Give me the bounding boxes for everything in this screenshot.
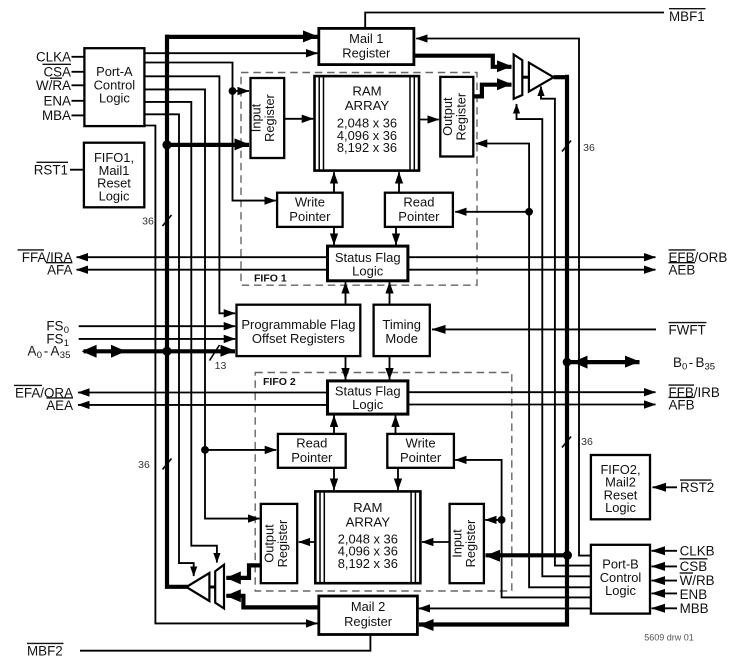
block Read Pointer 2 — [278, 434, 346, 468]
svg-text:35: 35 — [705, 361, 716, 372]
block Status Flag Logic 2 — [328, 381, 408, 414]
wire Port-A out 6 to output buffer 2 enable — [144, 114, 193, 576]
svg-text:ARRAY: ARRAY — [346, 514, 391, 529]
svg-text:AFB: AFB — [669, 398, 695, 413]
pin stub CLKA — [72, 56, 85, 58]
arrowhead A0-A35 right(mid) — [111, 345, 126, 358]
wire branch to Read Pointer 1 — [455, 211, 529, 213]
svg-text:Mail 2: Mail 2 — [351, 599, 385, 614]
block FIFO1 Mail1 Reset Logic — [84, 143, 144, 208]
block Programmable Flag Offset Registers — [237, 305, 361, 356]
svg-text:Read: Read — [296, 436, 327, 451]
wire Read Pointer 1 to RAM 1 — [398, 172, 400, 193]
svg-text:8,192 x 36: 8,192 x 36 — [337, 140, 397, 155]
junction dot A-data / Input Register 1 branch — [162, 140, 171, 149]
wire FWFT input to Timing Mode — [432, 328, 656, 330]
wire Read Pointer 1 to Status Flag Logic 1 — [395, 227, 397, 245]
svg-text:0: 0 — [37, 350, 42, 361]
register Input Register 2 — [450, 504, 484, 583]
bus width slash 36 lower-left — [163, 459, 172, 470]
svg-text:13: 13 — [215, 360, 227, 372]
svg-text:36: 36 — [138, 459, 150, 471]
bus width slash 13 — [210, 345, 220, 361]
output mux 1 (trapezoid, port B side) — [514, 55, 523, 99]
block Status Flag Logic 1 — [328, 246, 408, 281]
svg-text:B: B — [696, 355, 705, 370]
register Output Register 2 — [261, 504, 297, 583]
pin stub RST2 — [653, 486, 678, 488]
pin stub CLKB — [652, 550, 678, 552]
wire Port-A out 5 to output mux 2 enable — [144, 102, 217, 563]
svg-text:Pointer: Pointer — [398, 209, 440, 224]
svg-text:FWFT: FWFT — [669, 323, 706, 338]
junction dot Port-A out4 / Read Pointer 2 — [201, 446, 209, 454]
register Input Register 1 — [251, 78, 285, 158]
svg-text:36: 36 — [583, 142, 595, 154]
svg-text:MBA: MBA — [42, 108, 71, 123]
wire FFB/IRB flag line — [408, 391, 656, 393]
wire Read Pointer 2 to RAM 2 — [333, 468, 335, 490]
wire Write Pointer 1 to RAM 1 — [333, 172, 335, 193]
svg-text:A: A — [28, 344, 37, 359]
svg-text:Timing: Timing — [382, 317, 421, 332]
FIFO 1 dashed outline box — [241, 73, 477, 286]
svg-text:Logic: Logic — [99, 188, 130, 203]
register Mail 2 — [319, 596, 418, 635]
svg-text:Register: Register — [344, 614, 393, 629]
pin stub W/RA — [72, 84, 85, 86]
arrowhead A0-A35 left — [82, 345, 97, 358]
wire Port-A out 4 vertical to Output Register 2 — [144, 89, 259, 518]
wire Prog Flag Offset to Status Flag Logic 2 — [345, 356, 347, 379]
svg-text:RAM: RAM — [353, 500, 382, 515]
wire output mux 1 to output buffer 1 — [522, 76, 529, 79]
block FIFO2 Mail2 Reset Logic — [591, 455, 650, 519]
wire MBF2 net (Mail 2 Register bottom to MBF2 pin) — [80, 636, 370, 651]
wire Write Pointer 2 to Status Flag Logic 2 — [395, 416, 397, 434]
wire Timing Mode to Status Flag Logic 1 — [389, 282, 391, 305]
wire AEB flag line — [408, 269, 656, 271]
svg-text:W/RA: W/RA — [36, 78, 71, 93]
svg-text:ENA: ENA — [43, 94, 71, 109]
wire B-data branch to Input Register 2 (thick) — [486, 553, 568, 557]
svg-text:W/RB: W/RB — [680, 573, 715, 588]
pin stub CSB — [652, 565, 678, 567]
wire EFB/ORB flag line — [408, 256, 656, 258]
svg-text:35: 35 — [60, 350, 71, 361]
wire Port-B out 1 to Mail 1 Register control — [416, 39, 591, 556]
svg-text:0: 0 — [64, 325, 69, 336]
wire B0-B35 bus (thick, bidirectional) — [567, 360, 640, 364]
svg-text:Pointer: Pointer — [291, 450, 333, 465]
wire Output Register 1 data to output mux 1 (thick) — [473, 85, 511, 97]
svg-text:AEA: AEA — [46, 398, 73, 413]
svg-text:Read: Read — [403, 195, 434, 210]
wire B-data thick: output buffer 1 to B bus / Mail 2 Register — [554, 75, 567, 79]
svg-text:CLKB: CLKB — [680, 543, 715, 558]
block Port-A Control Logic — [84, 48, 144, 126]
FIFO 2 dashed outline box — [255, 373, 512, 592]
bus width slash 36 upper-left — [163, 215, 172, 226]
pin stub W/RB — [652, 580, 678, 582]
svg-text:Register: Register — [463, 519, 478, 567]
wire branch to Input Register 2 control — [485, 519, 501, 521]
pin stub MBB — [652, 607, 678, 609]
wire Port-B out 4 to Output Register 1 control — [476, 144, 591, 588]
wire Port-A out 2 vertical to Write Pointer 1 — [144, 63, 275, 201]
svg-text:RST2: RST2 — [680, 480, 714, 495]
svg-text:Logic: Logic — [605, 500, 636, 515]
wire Port-B out 3 to output mux 1 enable — [517, 104, 591, 576]
svg-text:Pointer: Pointer — [289, 209, 331, 224]
svg-text:-: - — [689, 355, 693, 370]
svg-text:RST1: RST1 — [34, 162, 68, 177]
pin stub CSA — [72, 71, 85, 73]
svg-text:8,192 x 36: 8,192 x 36 — [338, 556, 398, 571]
junction dot Port-B out5 / Input Register 2 — [498, 516, 506, 524]
register Output Register 1 — [440, 77, 473, 157]
pin stub ENA — [72, 100, 85, 102]
svg-text:Programmable Flag: Programmable Flag — [241, 317, 355, 332]
wire Port-B out 2 to output buffer 1 enable — [541, 87, 591, 566]
svg-text:0: 0 — [682, 361, 687, 372]
pin stub ENB — [652, 592, 678, 594]
wire AFB flag line — [408, 404, 656, 406]
svg-text:Logic: Logic — [605, 583, 636, 598]
wire A0-A35 bus (thick, bidirectional) — [84, 349, 236, 353]
bus width slash 36 upper-right — [562, 141, 571, 152]
junction dot B-data / B0-B35 — [563, 358, 572, 367]
wire Prog Flag Offset to Status Flag Logic 1 — [345, 282, 347, 305]
wire Mail 2 Register data to output mux 2 (thick) — [226, 596, 318, 608]
wire AFA flag line — [77, 269, 328, 271]
svg-text:MBF1: MBF1 — [669, 9, 705, 24]
wire branch to Input Register 1 control — [233, 90, 250, 92]
wire Port-B out 5 to Write Pointer 2 — [455, 460, 591, 598]
svg-text:Mail 1: Mail 1 — [349, 31, 383, 46]
svg-text:Register: Register — [454, 92, 469, 140]
wire Write Pointer 2 to RAM 2 — [397, 468, 399, 490]
output mux 2 (trapezoid, port A side) — [215, 565, 224, 609]
block RAM ARRAY 1 — [315, 76, 420, 171]
wire Mail 1 Register data to output mux 1 (thick) — [414, 56, 512, 67]
wire output mux 2 to output buffer 2 — [209, 586, 215, 589]
svg-text:ARRAY: ARRAY — [345, 98, 390, 113]
wire EFA/ORA flag line — [78, 392, 328, 394]
wire AEA flag line — [78, 404, 328, 406]
svg-text:1: 1 — [64, 338, 69, 349]
bus width slash 36 lower-right — [562, 437, 571, 448]
wire Input Register 2 to RAM 2 — [422, 541, 450, 543]
wire FS0 input — [79, 325, 236, 327]
svg-text:B: B — [673, 355, 682, 370]
wire bus A-data branch to Input Register 1 (thick) — [167, 143, 249, 147]
wire Timing Mode to Status Flag Logic 2 — [389, 356, 391, 379]
svg-text:ENB: ENB — [680, 587, 708, 602]
svg-text:Register: Register — [275, 519, 290, 567]
block RAM ARRAY 2 — [315, 491, 420, 583]
wire RAM 1 to Output Register 1 — [419, 119, 439, 121]
wire FS1 input — [79, 338, 236, 340]
svg-text:Logic: Logic — [99, 91, 130, 106]
wire Port-A out 1 to Mail 1 Register — [144, 52, 317, 54]
svg-text:Write: Write — [406, 436, 436, 451]
wire MBF1 net (Mail 1 Register top to MBF1 pin) — [365, 13, 664, 29]
wire bus A-data vertical (thick) with Mail 1 arrow — [167, 35, 318, 39]
svg-text:MBB: MBB — [680, 601, 709, 616]
arrowhead B0-B35 left — [573, 356, 588, 369]
wire FFA/IRA flag line — [77, 256, 328, 258]
junction dot Port-A out2 / Input Register 1 — [229, 87, 237, 95]
svg-text:Offset Registers: Offset Registers — [252, 331, 345, 346]
svg-text:-: - — [44, 344, 48, 359]
svg-text:Logic: Logic — [352, 264, 384, 279]
svg-text:Mode: Mode — [385, 331, 418, 346]
svg-text:Register: Register — [262, 93, 277, 141]
svg-text:CSB: CSB — [680, 559, 708, 574]
svg-text:Register: Register — [342, 45, 391, 60]
output buffer 1 (triangle, port B side) — [529, 63, 554, 92]
svg-text:Write: Write — [295, 195, 325, 210]
svg-text:Pointer: Pointer — [400, 450, 442, 465]
junction dot Port-B out4 / Read Pointer 1 — [525, 208, 533, 216]
svg-text:MBF2: MBF2 — [27, 644, 63, 659]
svg-text:FIFO 2: FIFO 2 — [263, 376, 296, 388]
output buffer 2 (triangle, port A side) — [186, 573, 209, 601]
wire Output Register 2 data to output mux 2 (thick) — [226, 565, 260, 578]
svg-text:36: 36 — [142, 216, 154, 228]
svg-text:AEB: AEB — [669, 263, 696, 278]
svg-text:36: 36 — [581, 436, 593, 448]
wire Write Pointer 1 to Status Flag Logic 1 — [333, 227, 335, 245]
svg-text:Logic: Logic — [352, 397, 384, 412]
wire Input Register 1 to RAM 1 — [284, 118, 313, 120]
block Write Pointer 2 — [387, 434, 454, 468]
svg-text:FIFO 1: FIFO 1 — [254, 273, 287, 285]
svg-text:AFA: AFA — [47, 263, 72, 278]
svg-text:CLKA: CLKA — [36, 50, 71, 65]
wire Read Pointer 2 to Status Flag Logic 2 — [333, 416, 335, 434]
block Timing Mode — [374, 305, 430, 356]
junction dot B-data / Input Register 2 branch — [563, 551, 572, 560]
pin stub MBA — [72, 114, 85, 116]
pin stub RST1 — [70, 169, 84, 171]
block Port-B Control Logic — [591, 545, 650, 614]
svg-text:A: A — [51, 344, 60, 359]
svg-text:5609 drw 01: 5609 drw 01 — [644, 633, 694, 643]
wire Port-A out 7 to Mail 2 Register control — [144, 126, 317, 624]
wire Port-B out 6 to Mail 2 Register control — [419, 607, 591, 609]
svg-text:RAM: RAM — [352, 84, 381, 99]
wire Port-A out 3 to Programmable Flag Offset Registers — [144, 76, 235, 313]
register Mail 1 — [319, 28, 414, 64]
block Read Pointer 1 — [385, 193, 453, 227]
wire RAM 2 to Output Register 2 — [299, 541, 316, 543]
junction dot A-data / A0-A35 — [162, 347, 171, 356]
block Write Pointer 1 — [277, 193, 343, 227]
wire branch to Read Pointer 2 — [205, 449, 276, 451]
